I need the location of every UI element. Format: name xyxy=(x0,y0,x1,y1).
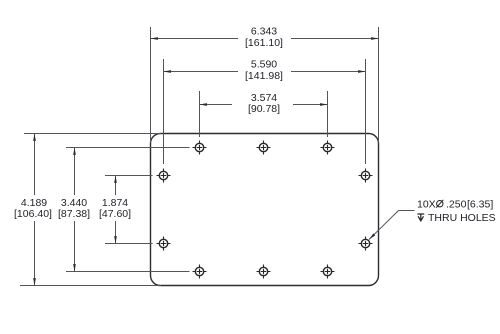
svg-text:[90.78]: [90.78] xyxy=(248,103,280,115)
svg-text:[87.38]: [87.38] xyxy=(58,208,90,220)
svg-text:[47.60]: [47.60] xyxy=(99,208,131,220)
svg-text:[6.35]: [6.35] xyxy=(467,199,493,211)
svg-text:[141.98]: [141.98] xyxy=(245,70,283,82)
svg-text:[106.40]: [106.40] xyxy=(14,208,52,220)
svg-text:10X: 10X xyxy=(417,199,436,211)
svg-text:THRU HOLES: THRU HOLES xyxy=(428,212,496,224)
svg-text:[161.10]: [161.10] xyxy=(245,37,283,49)
svg-text:.250: .250 xyxy=(446,199,467,211)
